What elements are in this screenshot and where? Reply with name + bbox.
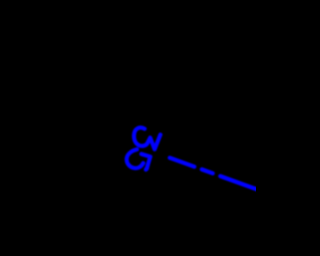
digit 5: stem foot [146, 168, 147, 169]
rotated route label "35" [127, 128, 161, 170]
digit 3 (rotated ~115deg: bowl + flat top bar zigzag) [134, 128, 160, 150]
dash segment 2 [202, 169, 213, 173]
dashed blue route line [170, 158, 257, 190]
digit 5: top bar and stem [141, 154, 150, 168]
dash segment 3 [220, 176, 257, 189]
dash segment 1 [170, 158, 195, 167]
digit 5: bowl [127, 149, 144, 168]
black map background [0, 0, 256, 256]
